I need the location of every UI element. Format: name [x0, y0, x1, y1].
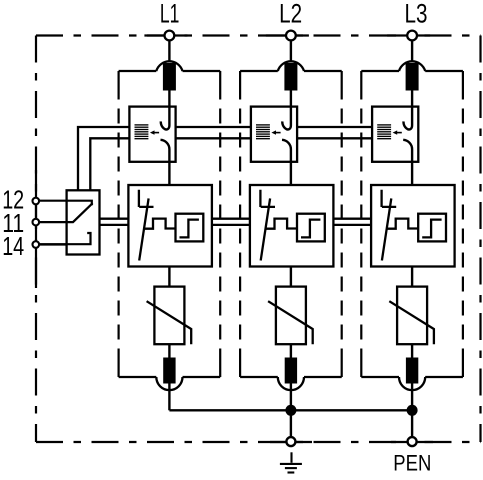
wire to earth bus channel L2 [290, 384, 292, 411]
solid border segments at terminals [144, 34, 187, 36]
svg-text:L3: L3 [405, 0, 428, 29]
module boundary box channel L1 (dashed) [119, 71, 221, 377]
12 contact riser (inside box) [39, 201, 92, 206]
plug-in connection arch (bottom) channel L2 [278, 377, 304, 390]
plug-in connection arch (top) channel L2 [278, 61, 304, 71]
lower contact hook channel L2 [282, 140, 291, 162]
wire to earth bus channel L3 [411, 384, 413, 411]
wire disconnector to thermal device channel L1 [168, 91, 170, 107]
terminal 14 [39, 243, 67, 245]
wire switching element to varistor channel L3 [411, 267, 413, 287]
disconnector element (top, filled) channel L3 [406, 63, 419, 91]
wire L2 terminal to disconnector F2 [290, 41, 292, 66]
switch contact (vertical + tick) channel L1 [139, 190, 154, 207]
terminal 11 [39, 221, 67, 223]
wire varistor to bottom disconnector channel L3 [411, 344, 413, 358]
switch blade channel L3 [382, 198, 391, 260]
wire bus to PEN terminal [411, 410, 413, 436]
terminal L1 [165, 31, 175, 41]
trigger waveform channel L1 [144, 219, 176, 229]
disconnector element (top, filled) channel L2 [284, 63, 297, 91]
wire varistor to bottom disconnector channel L2 [290, 344, 292, 358]
svg-text:14: 14 [2, 233, 24, 261]
switching element box (ACI) channel L2 [250, 185, 334, 267]
earth terminal [286, 437, 295, 446]
switch blade channel L1 [139, 198, 148, 260]
switch blade channel L2 [261, 198, 270, 260]
wire varistor to bottom disconnector channel L1 [168, 344, 170, 358]
varistor RU2 channel L2 [276, 287, 306, 345]
indicator hatched block channel L2 [256, 125, 270, 139]
thermal disconnect device (Thermo-Dynamik-Control) channel L1 [129, 107, 175, 162]
wire thermal device to switching element channel L1 [168, 162, 170, 185]
module boundary box channel L3 (dashed) [361, 71, 463, 377]
junction node L3/PEN [407, 405, 418, 416]
terminal 12 [33, 198, 40, 205]
control wires: remote contact to thermal devices (upper pair) [78, 127, 372, 190]
terminal L2 [286, 31, 296, 41]
switching element box (ACI) channel L3 [371, 185, 455, 267]
control wires: switching elements chain (lower pair) [100, 219, 371, 225]
switch contact (vertical + tick) channel L3 [382, 190, 397, 207]
thermal disconnect device (Thermo-Dynamik-Control) channel L2 [251, 107, 297, 162]
trigger unit box channel L3 [418, 214, 446, 242]
lower contact hook channel L1 [161, 140, 170, 162]
trigger waveform channel L2 [265, 219, 297, 229]
step glyph channel L1 [180, 220, 199, 238]
wire bus to earth terminal [290, 410, 292, 436]
wire disconnector to thermal device channel L3 [411, 91, 413, 107]
switching element box (ACI) channel L1 [128, 185, 212, 267]
svg-text:L1: L1 [160, 0, 180, 29]
earth bus wire [169, 409, 412, 411]
step glyph channel L3 [422, 220, 441, 238]
indicator hatched block channel L1 [135, 125, 149, 139]
switch contact (vertical + tick) channel L2 [260, 190, 275, 207]
svg-text:PEN: PEN [393, 450, 431, 475]
earth symbol [280, 452, 302, 472]
wire disconnector to thermal device channel L2 [290, 91, 292, 107]
junction node L2/earth [285, 405, 296, 416]
wire switching element to varistor channel L1 [168, 267, 170, 287]
plug-in connection arch (bottom) channel L3 [399, 377, 425, 390]
lower contact hook channel L3 [403, 140, 412, 162]
disconnector element (top, filled) channel L1 [163, 63, 176, 91]
wire L1 terminal to disconnector F1 [168, 41, 170, 66]
actuation arrow channel L1 [154, 132, 159, 134]
trigger unit box channel L2 [297, 214, 325, 242]
disconnector element (bottom, filled) channel L3 [406, 358, 418, 384]
wire switching element to varistor channel L2 [290, 267, 292, 287]
wire thermal device to switching element channel L2 [290, 162, 292, 185]
disconnector element (bottom, filled) channel L2 [285, 358, 297, 384]
device enclosure border (dash-dot) [36, 36, 481, 443]
remote signalling changeover contact box [67, 190, 100, 254]
plug-in connection arch (bottom) channel L1 [156, 377, 182, 390]
module boundary box channel L2 (dashed) [240, 71, 342, 377]
trigger waveform channel L3 [387, 219, 419, 229]
actuation arrow channel L3 [397, 132, 402, 134]
upper contact hook channel L2 [282, 107, 291, 130]
varistor RU3 channel L3 [397, 287, 427, 345]
svg-text:L2: L2 [279, 0, 302, 29]
wire L3 terminal to disconnector F3 [411, 41, 413, 66]
indicator hatched block channel L3 [377, 125, 391, 139]
upper contact hook channel L3 [403, 107, 412, 130]
wire thermal device to switching element channel L3 [411, 162, 413, 185]
PEN terminal [408, 437, 417, 446]
upper contact hook channel L1 [161, 107, 170, 130]
trigger unit box channel L1 [176, 214, 204, 242]
varistor RU1 channel L1 [154, 287, 184, 345]
changeover blade 11-12 [67, 203, 93, 222]
plug-in connection arch (top) channel L1 [156, 61, 182, 71]
terminal L3 [407, 31, 417, 41]
actuation arrow channel L2 [276, 132, 281, 134]
thermal disconnect device (Thermo-Dynamik-Control) channel L3 [372, 107, 418, 162]
wire to earth bus channel L1 [168, 384, 170, 411]
plug-in connection arch (top) channel L3 [399, 61, 425, 71]
disconnector element (bottom, filled) channel L1 [163, 358, 175, 384]
step glyph channel L2 [301, 220, 320, 238]
14 break contact [39, 233, 91, 244]
